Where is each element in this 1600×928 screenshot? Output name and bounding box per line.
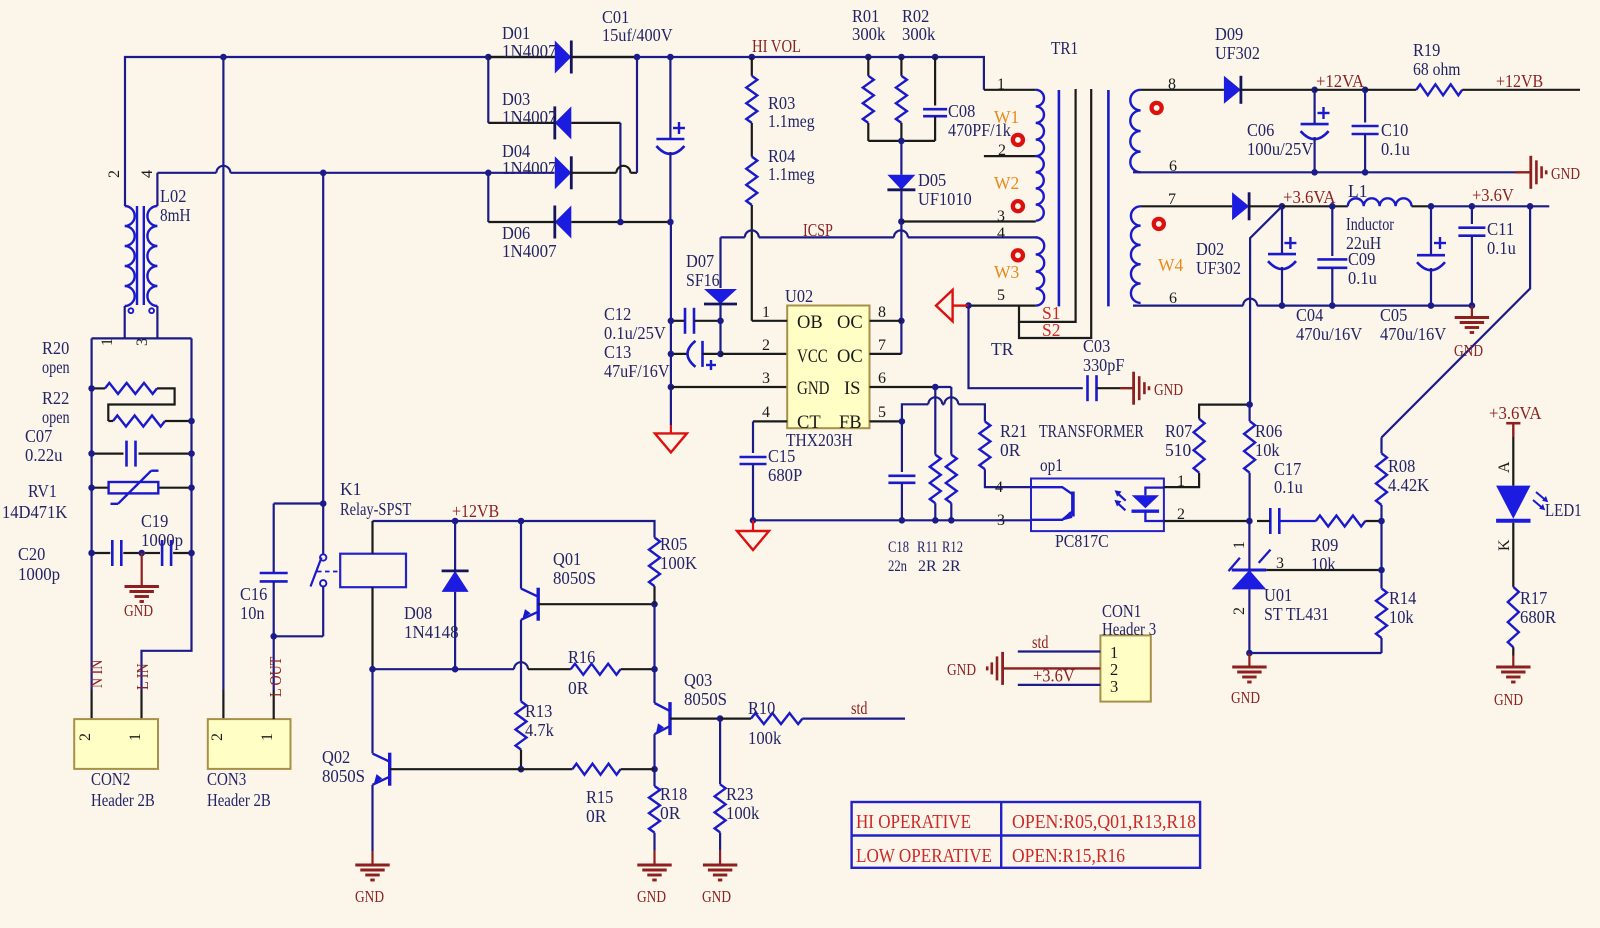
svg-text:+3.6V: +3.6V bbox=[1033, 666, 1075, 686]
svg-text:K: K bbox=[1496, 539, 1513, 551]
relay bottom pin bbox=[371, 587, 373, 669]
wire vertical to CON3 pin2 bbox=[222, 57, 224, 690]
svg-text:1: 1 bbox=[259, 733, 276, 741]
TR1 pin5 wire bbox=[969, 305, 1036, 307]
resistor R01 bbox=[867, 57, 869, 76]
TR1 pin8 wire bbox=[1141, 89, 1224, 91]
L02 polarity circles bbox=[129, 308, 134, 313]
svg-text:N IN: N IN bbox=[87, 660, 106, 688]
junction pin2 node bbox=[1246, 518, 1253, 525]
junction C10 bottom bbox=[1362, 169, 1369, 176]
svg-text:10k: 10k bbox=[1389, 607, 1414, 627]
svg-text:GND: GND bbox=[947, 660, 976, 679]
svg-text:HI VOL: HI VOL bbox=[752, 36, 801, 56]
resistor R13 bbox=[516, 701, 527, 749]
svg-text:0.1u/25V: 0.1u/25V bbox=[604, 323, 666, 343]
svg-text:0.22u: 0.22u bbox=[25, 445, 63, 465]
svg-text:C04: C04 bbox=[1296, 305, 1324, 325]
junction D08 top bbox=[452, 518, 459, 525]
svg-text:C07: C07 bbox=[25, 426, 53, 446]
svg-text:1000p: 1000p bbox=[141, 530, 183, 550]
svg-text:R07: R07 bbox=[1165, 421, 1193, 441]
svg-text:1N4148: 1N4148 bbox=[404, 622, 459, 642]
svg-text:SF16: SF16 bbox=[686, 270, 720, 290]
svg-text:3: 3 bbox=[997, 208, 1005, 225]
ground bars CON1 bbox=[1001, 652, 1004, 685]
junction R01 top bbox=[865, 54, 872, 61]
inductor L02 right winding bbox=[147, 206, 157, 306]
capacitor C09 bbox=[1331, 206, 1333, 256]
wire D04 branch down bbox=[487, 173, 489, 222]
svg-text:GND: GND bbox=[1551, 164, 1580, 183]
C13 plus bbox=[706, 364, 716, 366]
varistor RV1 bbox=[92, 487, 109, 489]
svg-text:R05: R05 bbox=[660, 534, 688, 554]
ground earth below C19 C20 bbox=[125, 585, 159, 588]
svg-text:CT: CT bbox=[797, 413, 821, 433]
capacitor C16 bbox=[260, 572, 288, 575]
svg-text:OPEN:R05,Q01,R13,R18: OPEN:R05,Q01,R13,R18 bbox=[1012, 812, 1196, 833]
svg-text:C03: C03 bbox=[1083, 336, 1111, 356]
junction RV1 left bbox=[88, 484, 95, 491]
junction C09 top bbox=[1329, 203, 1336, 210]
svg-text:C18: C18 bbox=[888, 539, 909, 556]
svg-text:U02: U02 bbox=[785, 286, 813, 306]
resistor R18 bbox=[653, 769, 655, 786]
svg-text:1.1meg: 1.1meg bbox=[768, 164, 815, 184]
svg-text:LED1: LED1 bbox=[1545, 500, 1582, 520]
junction C20 left bbox=[88, 550, 95, 557]
capacitor C12 bbox=[671, 320, 685, 322]
svg-text:D08: D08 bbox=[404, 603, 432, 623]
wire CON3 pin1 down bbox=[273, 636, 275, 690]
svg-text:op1: op1 bbox=[1040, 455, 1063, 475]
TR1 sec1 polarity dot bbox=[1149, 101, 1163, 115]
junction bridge mid-left bbox=[485, 170, 492, 177]
svg-text:5: 5 bbox=[878, 404, 886, 421]
svg-text:8050S: 8050S bbox=[322, 766, 365, 786]
svg-text:0R: 0R bbox=[1000, 440, 1021, 460]
junction C10 top bbox=[1362, 87, 1369, 94]
junction C06 top bbox=[1311, 87, 1318, 94]
svg-text:L02: L02 bbox=[160, 186, 186, 206]
junction C12 left bbox=[668, 318, 675, 325]
C18 plates bbox=[888, 474, 915, 477]
svg-text:0.1u: 0.1u bbox=[1381, 139, 1410, 159]
svg-text:68 ohm: 68 ohm bbox=[1413, 59, 1461, 79]
transistor Q01 bbox=[520, 521, 522, 589]
svg-text:A: A bbox=[1496, 461, 1513, 473]
svg-text:C11: C11 bbox=[1487, 219, 1514, 239]
TR1 W3 polarity dot bbox=[1011, 248, 1025, 262]
diode D05 bbox=[900, 141, 902, 175]
svg-text:300k: 300k bbox=[852, 24, 886, 44]
wire diagonal to 3.6V bbox=[1382, 206, 1531, 437]
svg-text:THX203H: THX203H bbox=[786, 430, 853, 450]
svg-text:RV1: RV1 bbox=[28, 481, 57, 501]
resistor R12 bbox=[946, 455, 957, 504]
svg-text:C13: C13 bbox=[604, 342, 632, 362]
junction top wire to CON3 column bbox=[220, 54, 227, 61]
capacitor C06 bbox=[1313, 90, 1315, 124]
junction R23 top bbox=[717, 715, 724, 722]
diode D03 bbox=[488, 122, 555, 124]
resistor R14 bbox=[1380, 570, 1382, 588]
junction R05 bottom bbox=[651, 601, 658, 608]
svg-text:R23: R23 bbox=[726, 784, 754, 804]
svg-text:open: open bbox=[42, 407, 70, 427]
diode D02 bbox=[1232, 192, 1249, 220]
svg-text:GND: GND bbox=[797, 379, 830, 399]
U01 ref wire bbox=[1266, 569, 1381, 571]
capacitor C15 bbox=[740, 456, 767, 459]
power port arrow at pin5 bbox=[936, 290, 953, 321]
svg-text:GND: GND bbox=[1154, 380, 1183, 399]
junction bridge top-left bbox=[485, 54, 492, 61]
junction C09 bottom bbox=[1329, 302, 1336, 309]
wire right filter rail bbox=[142, 338, 192, 690]
ground port below negative rail bbox=[670, 425, 672, 433]
wire R11 top bbox=[934, 387, 936, 404]
U02 pin5 wire bbox=[870, 420, 902, 422]
wire switch junction to C16 bbox=[274, 502, 324, 504]
svg-text:R22: R22 bbox=[42, 388, 69, 408]
wire U01 gnd bbox=[1248, 653, 1250, 666]
svg-text:CON1: CON1 bbox=[1102, 601, 1141, 621]
svg-text:OB: OB bbox=[797, 313, 823, 333]
TR1 pin2 stub bbox=[984, 155, 1036, 157]
junction R02 top bbox=[898, 54, 905, 61]
resistor R08 bbox=[1380, 505, 1382, 521]
wire R11 R12 through bbox=[934, 404, 936, 455]
svg-text:4: 4 bbox=[139, 170, 156, 178]
svg-text:4: 4 bbox=[995, 479, 1003, 496]
svg-text:C19: C19 bbox=[141, 511, 169, 531]
junction C16 bottom bbox=[270, 633, 277, 640]
junction C15 bottom bbox=[750, 517, 757, 524]
wire L02 pins to filter rails bbox=[124, 306, 126, 338]
junction C04 top bbox=[1279, 203, 1286, 210]
svg-text:CON3: CON3 bbox=[207, 769, 246, 789]
op1 LED bbox=[1145, 488, 1164, 496]
svg-text:Q03: Q03 bbox=[684, 670, 712, 690]
junction R11 bottom bbox=[932, 517, 939, 524]
svg-text:R02: R02 bbox=[902, 6, 929, 26]
wire ICSP line bbox=[721, 236, 745, 238]
junction ref R14 bbox=[1378, 567, 1385, 574]
svg-text:R10: R10 bbox=[748, 698, 776, 718]
junction R22 right bbox=[188, 418, 195, 425]
wire negative rail bbox=[670, 222, 672, 425]
svg-text:0.1u: 0.1u bbox=[1487, 238, 1516, 258]
svg-text:0.1u: 0.1u bbox=[1274, 477, 1303, 497]
svg-text:2R: 2R bbox=[918, 558, 937, 575]
svg-text:300k: 300k bbox=[902, 24, 936, 44]
svg-text:4.7k: 4.7k bbox=[525, 720, 554, 740]
svg-text:C16: C16 bbox=[240, 584, 268, 604]
svg-text:R16: R16 bbox=[568, 647, 596, 667]
svg-text:C08: C08 bbox=[948, 101, 976, 121]
svg-text:R13: R13 bbox=[525, 701, 553, 721]
capacitor C03 bbox=[1086, 375, 1089, 401]
diode D04 bbox=[555, 156, 572, 189]
resistor R07 bbox=[1164, 473, 1199, 487]
resistor R20 (open) bbox=[92, 387, 105, 389]
wire 3.6V return rail bbox=[1133, 305, 1243, 307]
ground earth R18 bbox=[637, 864, 671, 867]
resistor R22 (open) bbox=[113, 416, 165, 427]
wire snubber bottom bbox=[868, 140, 935, 142]
junction RV1 right bbox=[188, 484, 195, 491]
wire second AC line with hop at x=223 bbox=[157, 172, 216, 174]
TR1 primary W1 winding bbox=[984, 89, 1036, 91]
wire bottom sense rail bbox=[753, 519, 1031, 521]
svg-text:LOW OPERATIVE: LOW OPERATIVE bbox=[856, 846, 992, 867]
ground port below C15 bbox=[752, 520, 754, 531]
ground earth U01 bbox=[1232, 666, 1266, 669]
TR1 core line left bbox=[1058, 90, 1061, 306]
svg-text:W1: W1 bbox=[994, 107, 1019, 127]
svg-text:CON2: CON2 bbox=[91, 769, 130, 789]
LED supply bar bbox=[1506, 422, 1520, 425]
svg-text:R06: R06 bbox=[1255, 421, 1283, 441]
svg-text:UF302: UF302 bbox=[1196, 258, 1241, 278]
U02 pin4 wire bbox=[753, 420, 787, 422]
resistor R03 bbox=[751, 57, 753, 76]
junction C19 right bbox=[188, 550, 195, 557]
wire D07 node down bbox=[719, 321, 721, 354]
svg-text:47uF/16V: 47uF/16V bbox=[604, 361, 670, 381]
TR1 W1 polarity dot bbox=[1011, 133, 1025, 147]
transistor Q03 bbox=[668, 702, 671, 735]
junction C07 left bbox=[88, 450, 95, 457]
junction C13 left bbox=[668, 351, 675, 358]
svg-text:1N4007: 1N4007 bbox=[502, 107, 557, 127]
L02 core lines bbox=[136, 206, 138, 305]
svg-text:330pF: 330pF bbox=[1083, 355, 1125, 375]
svg-text:7: 7 bbox=[878, 337, 886, 354]
svg-text:+12VB: +12VB bbox=[1496, 71, 1543, 91]
C06 plus bbox=[1318, 112, 1330, 114]
TR1 shield S1 line bbox=[1019, 89, 1076, 322]
component U02 box bbox=[787, 306, 869, 429]
svg-text:R09: R09 bbox=[1311, 535, 1339, 555]
wire pin5 node down to C03 line bbox=[969, 306, 1083, 389]
resistor R02 bbox=[900, 57, 902, 76]
capacitor C01 bbox=[669, 57, 671, 139]
U02 pin6 wire bbox=[870, 386, 936, 388]
wire Q03 emitter down bbox=[653, 734, 655, 769]
junction C08 top bbox=[932, 54, 939, 61]
svg-text:470u/16V: 470u/16V bbox=[1380, 324, 1447, 344]
svg-text:R18: R18 bbox=[660, 784, 688, 804]
svg-text:R12: R12 bbox=[942, 539, 963, 556]
wire 3.6V rail right end bbox=[1472, 205, 1549, 207]
svg-text:D09: D09 bbox=[1215, 24, 1243, 44]
junction relay bottom bbox=[369, 666, 376, 673]
svg-text:R03: R03 bbox=[768, 93, 796, 113]
svg-text:C06: C06 bbox=[1247, 120, 1275, 140]
svg-text:C10: C10 bbox=[1381, 120, 1409, 140]
resistor R04 bbox=[746, 157, 757, 205]
junction C11 top bbox=[1469, 203, 1476, 210]
wire FB line with hops bbox=[902, 404, 928, 421]
svg-text:D05: D05 bbox=[918, 170, 946, 190]
svg-text:R11: R11 bbox=[917, 539, 938, 556]
C05 plus bbox=[1434, 242, 1446, 244]
wire LED cathode bbox=[1512, 523, 1514, 587]
diode D01 bbox=[488, 56, 555, 58]
TR1 secondary winding 8-6 bbox=[1130, 90, 1140, 173]
optocoupler op1 box bbox=[1031, 479, 1164, 532]
svg-text:100k: 100k bbox=[726, 803, 760, 823]
ground bars 12V bbox=[1529, 156, 1532, 189]
svg-text:U01: U01 bbox=[1264, 585, 1292, 605]
svg-text:R20: R20 bbox=[42, 338, 70, 358]
junction R16 right bbox=[651, 666, 658, 673]
svg-text:6: 6 bbox=[1169, 290, 1177, 307]
junction C13 right bbox=[717, 351, 724, 358]
junction K1 top bbox=[320, 500, 327, 507]
resistor R10 bbox=[720, 717, 751, 719]
svg-text:Q02: Q02 bbox=[322, 747, 350, 767]
svg-text:680P: 680P bbox=[768, 465, 803, 485]
svg-text:open: open bbox=[42, 357, 70, 377]
svg-text:UF1010: UF1010 bbox=[918, 189, 972, 209]
junction R20 left bbox=[88, 385, 95, 392]
TR1 secondary winding 7-6 bbox=[1131, 206, 1141, 303]
wire D05 down to pin7 bbox=[900, 222, 902, 354]
wire ICSP corner down to D07 bbox=[719, 237, 721, 288]
capacitor C07 bbox=[92, 453, 124, 455]
U02 pin1 wire bbox=[752, 320, 787, 322]
svg-text:+3.6VA: +3.6VA bbox=[1489, 403, 1542, 423]
capacitor C11 bbox=[1471, 206, 1473, 224]
svg-text:K1: K1 bbox=[340, 479, 361, 499]
svg-text:C17: C17 bbox=[1274, 459, 1302, 479]
junction C12 right bbox=[717, 318, 724, 325]
svg-text:C15: C15 bbox=[768, 446, 796, 466]
ground earth R23 bbox=[703, 864, 737, 867]
svg-text:HI OPERATIVE: HI OPERATIVE bbox=[856, 812, 971, 833]
svg-text:W2: W2 bbox=[994, 173, 1019, 193]
svg-text:GND: GND bbox=[1494, 690, 1523, 709]
transistor Q02 bbox=[371, 669, 373, 753]
resistor R09 bbox=[1316, 516, 1366, 527]
junction wire2 to relay column bbox=[320, 170, 327, 177]
junction C18 bottom bbox=[899, 517, 906, 524]
svg-text:15uf/400V: 15uf/400V bbox=[602, 25, 673, 45]
svg-text:4: 4 bbox=[762, 404, 770, 421]
C04 plus bbox=[1284, 242, 1296, 244]
svg-text:4.42K: 4.42K bbox=[1388, 475, 1430, 495]
svg-text:0R: 0R bbox=[568, 678, 589, 698]
svg-text:D06: D06 bbox=[502, 223, 530, 243]
U01 TL431 bbox=[1248, 521, 1250, 570]
svg-text:680R: 680R bbox=[1520, 607, 1556, 627]
svg-text:C20: C20 bbox=[18, 544, 46, 564]
svg-text:VCC: VCC bbox=[797, 347, 828, 367]
junction C07 right bbox=[188, 450, 195, 457]
inductor L1 bbox=[1348, 198, 1412, 206]
junction R12 bottom bbox=[948, 517, 955, 524]
wire relay D08 rail bbox=[373, 668, 515, 670]
table box bbox=[852, 802, 1201, 868]
junction D04 riser top bbox=[634, 54, 641, 61]
wire +12VB rail bbox=[373, 521, 655, 538]
junction D06 D03 bbox=[617, 219, 624, 226]
capacitor C05 bbox=[1430, 206, 1432, 255]
resistor R15 bbox=[521, 768, 572, 770]
svg-text:5: 5 bbox=[997, 287, 1005, 304]
wire LED anode bbox=[1512, 437, 1514, 486]
svg-text:L1: L1 bbox=[1348, 181, 1367, 201]
LED1 arrows bbox=[1533, 500, 1543, 509]
svg-text:22n: 22n bbox=[888, 558, 907, 575]
svg-text:+3.6V: +3.6V bbox=[1472, 185, 1514, 205]
wire mid caps to ground bbox=[141, 553, 143, 586]
svg-text:+3.6VA: +3.6VA bbox=[1283, 187, 1336, 207]
junction C05 top bbox=[1428, 203, 1435, 210]
svg-text:1N4007: 1N4007 bbox=[502, 41, 557, 61]
svg-text:W3: W3 bbox=[994, 262, 1020, 282]
svg-text:2: 2 bbox=[762, 337, 770, 354]
junction C11 bottom bbox=[1469, 302, 1476, 309]
svg-text:OC: OC bbox=[837, 313, 863, 333]
TR1 shield S2 line bbox=[1019, 89, 1091, 338]
svg-text:R04: R04 bbox=[768, 146, 796, 166]
wire 12VA rail segment bbox=[1315, 89, 1366, 91]
junction D05 top bbox=[898, 138, 905, 145]
svg-text:8: 8 bbox=[878, 304, 886, 321]
wire R05 node to Q03 bbox=[653, 604, 655, 703]
svg-text:10k: 10k bbox=[1255, 440, 1280, 460]
TR1 primary W3 winding bbox=[1036, 237, 1045, 305]
junction R09 right bbox=[1378, 518, 1385, 525]
svg-text:std: std bbox=[851, 698, 868, 718]
diode LED1 bbox=[1496, 486, 1530, 519]
svg-text:14D471K: 14D471K bbox=[2, 502, 68, 522]
svg-text:FB: FB bbox=[839, 413, 862, 433]
svg-text:1: 1 bbox=[127, 733, 144, 741]
resistor R19 bbox=[1365, 89, 1416, 91]
svg-text:C12: C12 bbox=[604, 304, 631, 324]
capacitor C17 bbox=[1269, 508, 1272, 534]
svg-text:1: 1 bbox=[762, 304, 770, 321]
junction IS R11 bbox=[932, 384, 939, 391]
svg-text:+12VA: +12VA bbox=[1316, 71, 1364, 91]
ground bars at C03 bbox=[1132, 372, 1135, 405]
svg-text:1N4007: 1N4007 bbox=[502, 241, 557, 261]
capacitor C19 bbox=[161, 540, 164, 566]
svg-text:Q01: Q01 bbox=[553, 549, 581, 569]
svg-text:R19: R19 bbox=[1413, 40, 1441, 60]
svg-text:S2: S2 bbox=[1042, 320, 1060, 340]
junction pin8 node bbox=[898, 318, 905, 325]
CON1 pin1 wire bbox=[1018, 650, 1101, 652]
resistor R05 bbox=[649, 538, 660, 587]
resistor R21 bbox=[979, 422, 990, 470]
svg-text:Header 2B: Header 2B bbox=[207, 790, 271, 810]
TR1 core line right bbox=[1107, 90, 1110, 306]
svg-text:8050S: 8050S bbox=[553, 568, 596, 588]
svg-text:C01: C01 bbox=[602, 7, 629, 27]
Q01 base wire bbox=[538, 603, 654, 605]
svg-text:0R: 0R bbox=[586, 806, 607, 826]
TR1 primary W2 winding bbox=[1036, 156, 1044, 221]
svg-text:L OUT: L OUT bbox=[266, 657, 285, 697]
relay K1 coil box bbox=[340, 554, 406, 588]
